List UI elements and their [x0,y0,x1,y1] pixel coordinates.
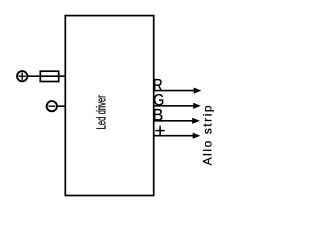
svg-text:B: B [152,107,163,125]
svg-text:Allo strip: Allo strip [200,105,214,165]
svg-text:Led driver: Led driver [94,95,108,129]
